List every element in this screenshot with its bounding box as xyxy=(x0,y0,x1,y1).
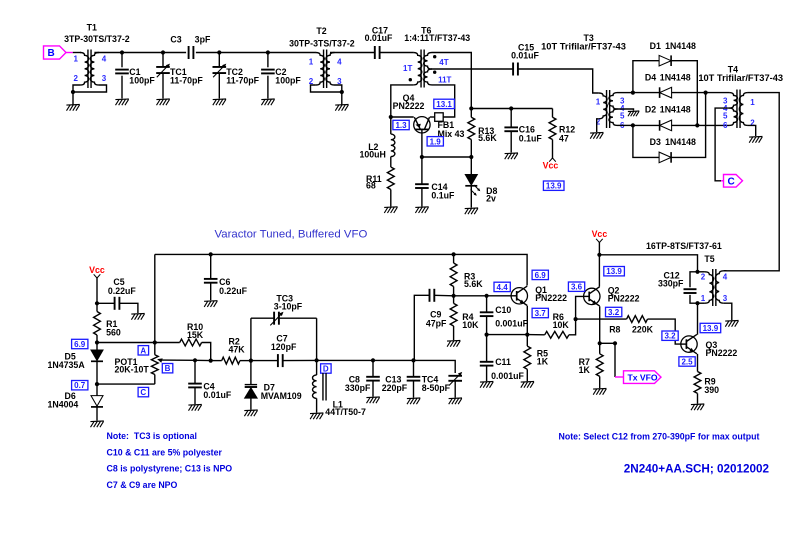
svg-text:5: 5 xyxy=(723,111,728,120)
wire T2 pin 2 to ground bracket xyxy=(311,85,342,92)
wire D4 node to T4 pin 3 xyxy=(706,92,730,94)
wire POT1 bottom to 0.7 node xyxy=(97,383,155,385)
wire feedback line to Q1 collector xyxy=(155,254,527,285)
svg-text:13.9: 13.9 xyxy=(703,324,719,333)
voltage label 3.7 (Q1 emitter) xyxy=(532,308,548,317)
svg-text:0.7: 0.7 xyxy=(74,381,86,390)
voltage label 0.7 xyxy=(72,381,88,390)
ground (TC2) xyxy=(213,98,226,101)
voltage label 1.9 (Q4 emitter) xyxy=(427,137,443,146)
svg-text:3.7: 3.7 xyxy=(535,309,547,318)
node T1 ground junction xyxy=(71,90,75,94)
svg-text:5.6K: 5.6K xyxy=(478,133,497,143)
resistor R1 xyxy=(94,303,121,342)
svg-text:5.6K: 5.6K xyxy=(464,279,483,289)
diode D1 xyxy=(633,55,697,125)
capacitor C1 xyxy=(115,53,155,99)
transformer T5 xyxy=(646,241,728,306)
node R10 bottom junction xyxy=(209,359,213,363)
transformer T1 xyxy=(64,22,130,88)
node ring left bottom xyxy=(631,123,635,127)
transformer T2 xyxy=(289,26,355,88)
wire resonator to TC4 xyxy=(414,360,456,373)
potentiometer POT1 xyxy=(115,343,196,385)
wire bus C3-TC2 xyxy=(196,52,219,54)
wire Q4 right lead to FB1 xyxy=(430,116,435,118)
svg-text:Note: TC3 is optional: Note: TC3 is optional xyxy=(107,431,197,441)
node C10 bottom junction xyxy=(485,333,489,337)
svg-text:T2: T2 xyxy=(316,26,326,36)
svg-text:D3: D3 xyxy=(650,137,661,147)
node Q4 emitter row left xyxy=(420,155,424,159)
wire T5 pin 4 stub xyxy=(724,270,727,272)
capacitor C11 xyxy=(480,335,525,382)
capacitor C2 xyxy=(261,53,301,99)
node R13 top xyxy=(469,106,473,110)
wire R13 node to R12 xyxy=(471,108,552,110)
power Vcc (R12) xyxy=(543,158,559,171)
svg-text:C11: C11 xyxy=(495,357,511,367)
wire T2 pin 4 to C17 xyxy=(330,52,375,54)
wire POT top to feedback line xyxy=(154,254,156,342)
svg-text:1: 1 xyxy=(74,55,79,64)
svg-text:3.2: 3.2 xyxy=(664,332,676,341)
voltage label 13.1 xyxy=(434,99,455,108)
wire Q2 emitter down xyxy=(599,306,601,343)
voltage label 3.2 (Q2 emitter) xyxy=(606,307,622,316)
node C4 tap xyxy=(193,358,197,362)
transistor Q2 xyxy=(584,286,640,307)
svg-text:D: D xyxy=(323,365,329,374)
wire B to T1 pin 1 xyxy=(73,52,81,54)
wire T3 pin 6 to ring xyxy=(618,124,633,126)
node C8 tap xyxy=(371,358,375,362)
ground (C13) xyxy=(407,397,420,400)
svg-text:D1: D1 xyxy=(650,41,661,51)
varactor diode D7 xyxy=(245,361,302,410)
voltage label 1.3 (Q4 base) xyxy=(393,120,409,129)
svg-text:Note: Select C12 from 270-390p: Note: Select C12 from 270-390pF for max … xyxy=(559,432,760,442)
svg-text:R8: R8 xyxy=(609,325,620,335)
node ring left top xyxy=(631,91,635,95)
wire T4 pin 1 to T5 pin 4 (right edge) xyxy=(724,93,780,271)
wire bus C2 to T2 pin 1 xyxy=(268,52,316,54)
ferrite bead FB1 xyxy=(435,113,465,139)
ground (T3 center tap) xyxy=(628,110,639,113)
svg-text:4: 4 xyxy=(102,55,107,64)
svg-text:1: 1 xyxy=(596,98,601,107)
voltage label 6.9 xyxy=(72,339,88,348)
svg-text:10T Trifilar/FT37-43: 10T Trifilar/FT37-43 xyxy=(698,73,783,83)
svg-text:1N4148: 1N4148 xyxy=(665,41,696,51)
svg-text:2: 2 xyxy=(74,74,79,83)
wire Q3 collector up to T5 pin 1 node xyxy=(697,303,699,335)
ground (R7) xyxy=(593,388,606,391)
svg-text:1: 1 xyxy=(701,294,706,303)
node Q1 emitter junction xyxy=(525,333,529,337)
transformer T6 xyxy=(403,26,470,88)
svg-text:4.4: 4.4 xyxy=(497,283,509,292)
ground (D6) xyxy=(90,420,103,423)
svg-text:3: 3 xyxy=(102,74,107,83)
wire bus TC2-C2 xyxy=(219,52,268,54)
svg-text:PN2222: PN2222 xyxy=(393,101,425,111)
svg-text:B: B xyxy=(48,48,55,59)
node C13 tap xyxy=(411,358,415,362)
wire T1 pin 2 to ground bracket xyxy=(73,85,80,92)
resistor R6 xyxy=(527,296,583,338)
svg-text:560: 560 xyxy=(106,328,121,338)
node C6 tap xyxy=(209,252,213,256)
voltage label 3.2 (Q3 base) xyxy=(662,331,678,340)
wire T3 pin 2 to ground xyxy=(597,119,599,132)
svg-text:0.01uF: 0.01uF xyxy=(203,390,231,400)
ground (L1) xyxy=(310,412,323,415)
diode D3 label xyxy=(650,137,696,147)
wire Q1 emitter to R5 node xyxy=(526,306,528,335)
svg-text:MVAM109: MVAM109 xyxy=(261,391,302,401)
node R3 top tap xyxy=(452,252,456,256)
svg-text:1: 1 xyxy=(750,98,755,107)
diode D1 label xyxy=(650,41,696,51)
wire Q4 emitter down to bypass row xyxy=(421,133,423,157)
wire bus C1-TC1 xyxy=(122,52,163,54)
ground (R5) xyxy=(521,381,534,384)
node T5 pin 1 junction xyxy=(695,301,699,305)
svg-text:330pF: 330pF xyxy=(345,383,371,393)
svg-text:A: A xyxy=(140,346,146,355)
resistor R3 xyxy=(450,254,483,295)
voltage label 6.9 (Q1 collector) xyxy=(532,270,548,279)
node Q2 collector / T5 junction xyxy=(597,253,601,257)
svg-text:C7 & C9 are NPO: C7 & C9 are NPO xyxy=(107,480,178,490)
svg-text:B: B xyxy=(165,364,171,373)
svg-text:47: 47 xyxy=(559,134,569,144)
capacitor C7 xyxy=(251,334,317,368)
resistor R2 xyxy=(211,337,251,365)
diode D4 label xyxy=(645,73,691,83)
ground (D8) xyxy=(465,207,478,210)
svg-text:5: 5 xyxy=(620,111,625,120)
svg-text:1N4148: 1N4148 xyxy=(660,105,691,115)
capacitor C5 xyxy=(97,277,138,313)
ground (T4 pin 2) xyxy=(749,136,762,139)
ground (C14) xyxy=(415,206,428,209)
svg-text:30TP-3TS/T37-2: 30TP-3TS/T37-2 xyxy=(289,38,355,48)
node T2 ground junction xyxy=(340,90,344,94)
svg-text:0.01uF: 0.01uF xyxy=(511,51,539,61)
node T5 pin 2 junction xyxy=(695,270,699,274)
ground (C1) xyxy=(115,98,128,101)
ground (R4) xyxy=(447,340,460,343)
node varactor junction xyxy=(249,359,253,363)
svg-text:PN2222: PN2222 xyxy=(706,348,738,358)
svg-text:330pF: 330pF xyxy=(658,279,684,289)
wire D2 node to T4 pin 6 xyxy=(697,124,729,126)
svg-text:1T: 1T xyxy=(403,64,412,73)
svg-text:11T: 11T xyxy=(438,76,451,85)
svg-text:D2: D2 xyxy=(645,105,656,115)
power Vcc (bottom left) xyxy=(89,265,105,304)
resistor R9 xyxy=(694,372,719,404)
voltage label 13.9 (Q3 collector) xyxy=(700,323,721,332)
svg-text:0.001uF: 0.001uF xyxy=(491,371,524,381)
resistor R5 xyxy=(524,335,549,382)
wire T4 center tap to port C xyxy=(715,108,729,181)
svg-text:13.1: 13.1 xyxy=(436,100,452,109)
wire C15 to T3 pin 1 xyxy=(518,69,599,93)
trimmer capacitor TC1 xyxy=(156,53,203,99)
svg-text:6.9: 6.9 xyxy=(74,340,86,349)
svg-text:100pF: 100pF xyxy=(129,76,155,86)
node ring right (D4-D3) xyxy=(704,91,708,95)
wire 6.9 node to POT1 top xyxy=(97,342,155,344)
svg-text:68: 68 xyxy=(366,181,376,191)
svg-text:220pF: 220pF xyxy=(382,383,408,393)
inductor L1 xyxy=(312,360,365,417)
capacitor C6 xyxy=(204,254,248,300)
svg-text:100uH: 100uH xyxy=(360,150,386,160)
svg-text:C: C xyxy=(728,176,735,187)
capacitor C4 xyxy=(188,360,232,404)
svg-text:3-10pF: 3-10pF xyxy=(274,302,303,312)
ground (C5) xyxy=(131,313,144,316)
transformer T4 xyxy=(698,65,783,130)
capacitor C15 xyxy=(511,42,539,75)
voltage label 3.6 (Q2 base) xyxy=(568,282,584,291)
ground (C16) xyxy=(505,152,518,155)
svg-text:C: C xyxy=(140,388,146,397)
wire T5 pin 3 to ground xyxy=(724,303,732,320)
ground (R9) xyxy=(691,403,704,406)
svg-text:C8 is polystyrene; C13 is NPO: C8 is polystyrene; C13 is NPO xyxy=(107,464,233,474)
svg-text:PN2222: PN2222 xyxy=(608,294,640,304)
svg-text:0.22uF: 0.22uF xyxy=(108,286,136,296)
svg-text:2.5: 2.5 xyxy=(681,358,693,367)
svg-text:15K: 15K xyxy=(187,330,204,340)
wire T2 junction to ground xyxy=(341,92,343,105)
svg-text:1.9: 1.9 xyxy=(430,137,442,146)
transformer T3 xyxy=(541,33,626,130)
capacitor C14 xyxy=(415,157,455,207)
ground (R11) xyxy=(384,206,397,209)
svg-text:3pF: 3pF xyxy=(195,34,211,44)
node TC1 tap xyxy=(161,50,165,54)
svg-text:0.1uF: 0.1uF xyxy=(431,191,455,201)
svg-text:1N4004: 1N4004 xyxy=(48,400,79,410)
svg-text:10K: 10K xyxy=(553,320,570,330)
wire T6 1T bottom to L2 node xyxy=(391,85,413,117)
ground (C8) xyxy=(366,396,379,399)
svg-text:120pF: 120pF xyxy=(271,342,297,352)
power Vcc (Q2) xyxy=(592,229,608,287)
wire T3 pin 3 to ring xyxy=(618,92,633,94)
diode D2 label xyxy=(645,105,691,115)
svg-text:0.001uF: 0.001uF xyxy=(495,319,528,329)
trimmer capacitor TC2 xyxy=(213,53,260,99)
net label D xyxy=(321,364,332,373)
node Tx VFO corner xyxy=(613,341,617,345)
svg-text:390: 390 xyxy=(704,385,719,395)
svg-text:PN2222: PN2222 xyxy=(535,293,567,303)
svg-text:Vcc: Vcc xyxy=(89,265,105,275)
svg-text:3.6: 3.6 xyxy=(571,283,583,292)
terminal label C xyxy=(138,387,149,396)
wire C17 to T6 pin xyxy=(380,52,414,54)
svg-text:8-50pF: 8-50pF xyxy=(422,383,451,393)
ground (C11) xyxy=(480,381,493,384)
transistor Q3 xyxy=(681,334,738,357)
wire Q3 emitter to R9 xyxy=(697,354,699,372)
node C2 tap xyxy=(266,50,270,54)
wire T2 pin 3 to ground bracket xyxy=(335,85,342,92)
svg-text:Vcc: Vcc xyxy=(543,161,559,171)
voltage label 2.5 (Q3 emitter) xyxy=(679,357,695,366)
trimmer capacitor TC4 xyxy=(422,372,463,398)
ground (TC1) xyxy=(156,98,169,101)
svg-text:1:4:11T/FT37-43: 1:4:11T/FT37-43 xyxy=(404,33,470,43)
svg-text:3.2: 3.2 xyxy=(608,308,620,317)
svg-text:D4: D4 xyxy=(645,73,656,83)
resistor R4 xyxy=(450,296,479,340)
svg-text:47K: 47K xyxy=(229,345,246,355)
svg-text:C10: C10 xyxy=(495,305,511,315)
svg-text:4: 4 xyxy=(337,57,342,66)
voltage label 4.4 (Q1 base) xyxy=(494,282,510,291)
diode D2 xyxy=(633,120,697,131)
wire resonator line xyxy=(317,359,414,361)
wire T1 pin 3 to ground bracket xyxy=(73,85,107,92)
capacitor C17 xyxy=(365,26,393,60)
transistor Q4 xyxy=(393,93,430,133)
svg-text:1N4148: 1N4148 xyxy=(665,137,696,147)
wire wiper line to R10 node xyxy=(195,359,211,361)
svg-text:100pF: 100pF xyxy=(275,76,301,86)
diode D4 xyxy=(633,87,706,98)
node emitter row right xyxy=(469,155,473,159)
resistor R13 xyxy=(468,109,497,158)
svg-text:3TP-30TS/T37-2: 3TP-30TS/T37-2 xyxy=(64,34,130,44)
terminal label A xyxy=(138,346,149,355)
wire emitter row xyxy=(422,156,471,158)
diode D6 xyxy=(48,384,104,421)
ground (T5 pin 3) xyxy=(725,320,738,323)
svg-text:4T: 4T xyxy=(439,58,448,67)
wire T6 4T top to R13 node xyxy=(432,53,471,109)
port C (output) xyxy=(721,175,743,188)
node C10 tap xyxy=(485,294,489,298)
node C16 tap xyxy=(509,106,513,110)
ground (T1) xyxy=(66,104,79,107)
svg-text:0.1uF: 0.1uF xyxy=(519,134,543,144)
wire Q1 base line xyxy=(454,295,512,297)
svg-text:10T Trifilar/FT37-43: 10T Trifilar/FT37-43 xyxy=(541,41,626,51)
port B (input) xyxy=(44,46,73,59)
node 0.7 junction xyxy=(95,382,99,386)
svg-text:C3: C3 xyxy=(170,34,181,44)
svg-text:Vcc: Vcc xyxy=(592,229,608,239)
svg-text:13.9: 13.9 xyxy=(606,267,622,276)
voltage label 13.9 (Vcc top) xyxy=(543,181,564,190)
svg-text:Tx VFO: Tx VFO xyxy=(628,373,658,383)
svg-text:1: 1 xyxy=(309,57,314,66)
wire C10 node to Q1 emitter node xyxy=(487,334,528,336)
voltage label 13.9 (Q2 collector) xyxy=(604,267,625,276)
svg-text:10K: 10K xyxy=(462,320,479,330)
svg-text:13.9: 13.9 xyxy=(546,182,562,191)
node Q4 base junction xyxy=(389,115,393,119)
wire bus TC1-C3 xyxy=(163,52,186,54)
capacitor C16 xyxy=(504,109,542,153)
capacitor C13 xyxy=(382,360,421,397)
svg-text:47pF: 47pF xyxy=(426,319,447,329)
ground (C4) xyxy=(188,404,201,407)
port Tx VFO xyxy=(615,343,661,383)
wire T3 center tap to ground xyxy=(618,109,634,111)
ground (T2) xyxy=(335,104,348,107)
wire C9 loop from resonator node xyxy=(414,295,430,360)
svg-text:0.01uF: 0.01uF xyxy=(365,33,393,43)
svg-text:T5: T5 xyxy=(704,254,714,264)
capacitor C8 xyxy=(345,360,380,396)
capacitor C10 xyxy=(480,296,529,335)
wire T6 tap to C15 xyxy=(432,68,513,70)
svg-text:2: 2 xyxy=(701,272,706,281)
resistor R7 xyxy=(579,343,604,388)
wire T6 11T bottom to FB1 xyxy=(432,85,455,117)
resistor R12 xyxy=(549,109,575,160)
svg-text:20K-10T: 20K-10T xyxy=(115,364,150,374)
wire T4 pin 2 to ground xyxy=(748,125,756,136)
svg-text:1N4735A: 1N4735A xyxy=(48,360,86,370)
capacitor C9 xyxy=(426,289,454,329)
node Q2 emitter junction xyxy=(598,341,602,345)
inductor L2 xyxy=(360,117,395,160)
ground (D7) xyxy=(244,409,257,412)
resistor R11 xyxy=(366,157,394,207)
LED D8 2v reference xyxy=(465,157,497,208)
svg-text:T1: T1 xyxy=(87,22,97,32)
wire T1 junction to ground xyxy=(72,92,74,105)
node Q1 base / R4 junction xyxy=(452,294,456,298)
node ring right (D1-D2) xyxy=(695,123,699,127)
svg-text:1N4148: 1N4148 xyxy=(660,73,691,83)
svg-text:44T/T50-7: 44T/T50-7 xyxy=(325,407,366,417)
svg-text:3: 3 xyxy=(723,294,728,303)
ground (TC4) xyxy=(449,397,462,400)
svg-text:C10 & C11 are 5% polyester: C10 & C11 are 5% polyester xyxy=(107,448,223,458)
node 6.9 junction xyxy=(95,340,99,344)
ground (T3 pin 2) xyxy=(590,132,603,135)
capacitor C3 xyxy=(170,34,211,59)
svg-text:220K: 220K xyxy=(632,325,654,335)
node TC2 tap xyxy=(217,50,221,54)
svg-text:16TP-8TS/FT37-61: 16TP-8TS/FT37-61 xyxy=(646,241,722,251)
wire base node to Q4 xyxy=(391,116,414,118)
resistor R8 xyxy=(576,316,681,344)
svg-text:2v: 2v xyxy=(486,194,496,204)
zener diode D5 xyxy=(48,343,104,385)
svg-text:11-70pF: 11-70pF xyxy=(226,76,259,86)
svg-text:1K: 1K xyxy=(537,357,549,367)
transistor Q1 xyxy=(511,285,567,306)
node C5 tap xyxy=(95,301,99,305)
node POT1 top junction xyxy=(153,340,157,344)
svg-text:0.22uF: 0.22uF xyxy=(219,286,247,296)
node resonator L1 junction xyxy=(315,358,319,362)
svg-text:1K: 1K xyxy=(579,365,591,375)
wire TC3 right down to resonator xyxy=(316,318,318,360)
